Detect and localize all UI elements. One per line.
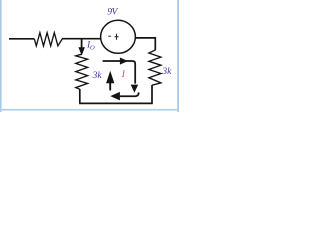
source minus sign (108, 35, 111, 37)
current up arrow (left side of loop) (109, 82, 111, 91)
frame bottom border (0, 109, 179, 111)
mesh loop right-side down arrowhead (131, 85, 139, 93)
svg-text:IO: IO (86, 40, 95, 52)
current arrow I_O (down from node) (81, 39, 83, 48)
wire bottom (79, 102, 153, 104)
voltage source V1 circle (101, 20, 136, 53)
frame left border (0, 0, 2, 112)
wire source right to resistor top (135, 38, 156, 50)
resistor R (horizontal, unlabeled) (34, 33, 62, 46)
source plus sign (115, 34, 119, 40)
wire right resistor bottom stub (151, 85, 153, 104)
frame right border (177, 0, 179, 112)
mesh loop bottom segment with left arrow (120, 92, 139, 96)
wire resistor to source node (62, 38, 102, 40)
wire left resistor bottom stub (79, 89, 81, 103)
svg-text:3k: 3k (92, 71, 103, 81)
svg-text:I: I (121, 70, 126, 80)
mesh loop top segment with right arrow (103, 61, 136, 84)
resistor 3k left (vertical) (76, 54, 88, 89)
svg-text:9V: 9V (107, 6, 118, 17)
resistor 3k right (vertical) (149, 50, 161, 85)
svg-text:3k: 3k (161, 67, 172, 77)
wire left stub to resistor (9, 38, 34, 40)
